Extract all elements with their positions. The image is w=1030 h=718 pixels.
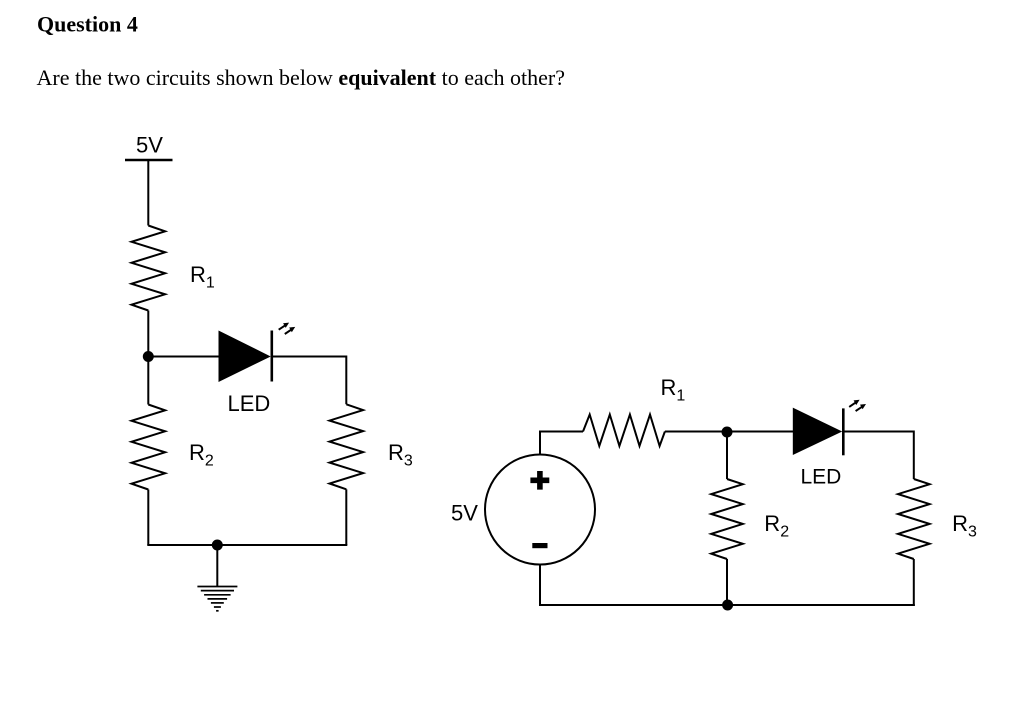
svg-text:R3: R3: [388, 440, 413, 470]
svg-text:LED: LED: [228, 391, 271, 416]
resistor R3 (left): [330, 404, 364, 489]
LED D2 triangle (anode): [793, 408, 842, 455]
wire: rail to R1 top: [147, 160, 149, 226]
resistor R2 (left): [132, 405, 166, 490]
LED D2 cathode bar: [842, 408, 845, 455]
wire: R2 bottom to ground rail: [147, 490, 149, 546]
wire: node A to LED anode: [148, 356, 218, 358]
wire: R3 bottom to ground rail: [345, 489, 347, 545]
ground symbol: [197, 587, 237, 611]
resistor R1 (right, horizontal): [583, 415, 665, 447]
svg-text:R1: R1: [661, 375, 686, 405]
wire: bottom rail (left circuit): [147, 544, 347, 546]
LED D1 triangle (anode): [219, 331, 271, 383]
node D (bottom junction dot): [722, 600, 733, 611]
resistor R1 (left): [132, 226, 166, 311]
node A (junction dot): [143, 351, 154, 362]
voltage source V1 circle: [485, 455, 595, 565]
node B (bottom junction dot): [212, 540, 223, 551]
wire: source bottom to bottom rail: [539, 565, 541, 607]
svg-text:Are the two circuits shown bel: Are the two circuits shown below equival…: [37, 65, 566, 90]
wire: node B to ground symbol: [216, 545, 218, 586]
svg-text:R2: R2: [764, 511, 789, 541]
wire: R1 bottom through node A to R2 top: [147, 311, 149, 405]
wire: bottom rail (right circuit): [539, 604, 915, 606]
LED light ray arrows (right): [849, 400, 859, 407]
LED D1 cathode bar: [270, 331, 273, 382]
wire: R1 right to node C: [665, 431, 727, 433]
svg-text:LED: LED: [801, 465, 842, 488]
svg-text:5V: 5V: [451, 501, 478, 526]
wire: LED cathode to top of R3 branch: [272, 357, 347, 405]
svg-text:R3: R3: [952, 511, 977, 541]
voltage source plus sign: [530, 471, 549, 490]
wire: LED cathode to R3 top corner: [843, 432, 914, 480]
node C (top junction dot): [722, 427, 733, 438]
wire: R2 bottom to bottom rail: [726, 559, 728, 605]
wire: R3 bottom to bottom rail: [913, 559, 915, 606]
resistor R2 (right): [711, 479, 743, 559]
resistor R3 (right): [898, 479, 930, 559]
svg-text:R2: R2: [189, 440, 214, 470]
5V supply rail bar: [125, 159, 173, 161]
wire: node C down to R2 top: [726, 432, 728, 479]
wire: node C to LED anode: [727, 431, 793, 433]
svg-text:R1: R1: [190, 262, 215, 292]
svg-text:5V: 5V: [136, 133, 163, 158]
LED light ray arrows (left): [279, 323, 289, 330]
wire: source top to R1 left: [540, 432, 583, 456]
svg-text:Question 4: Question 4: [37, 11, 138, 36]
voltage source minus sign: [532, 543, 547, 548]
